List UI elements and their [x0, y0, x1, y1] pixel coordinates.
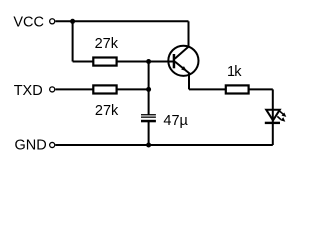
svg-text:27k: 27k	[95, 103, 119, 119]
svg-text:VCC: VCC	[13, 15, 44, 31]
svg-text:TXD: TXD	[14, 83, 43, 99]
svg-text:47µ: 47µ	[163, 113, 188, 129]
svg-text:GND: GND	[15, 138, 47, 154]
svg-text:27k: 27k	[95, 36, 119, 52]
svg-text:1k: 1k	[227, 64, 242, 80]
